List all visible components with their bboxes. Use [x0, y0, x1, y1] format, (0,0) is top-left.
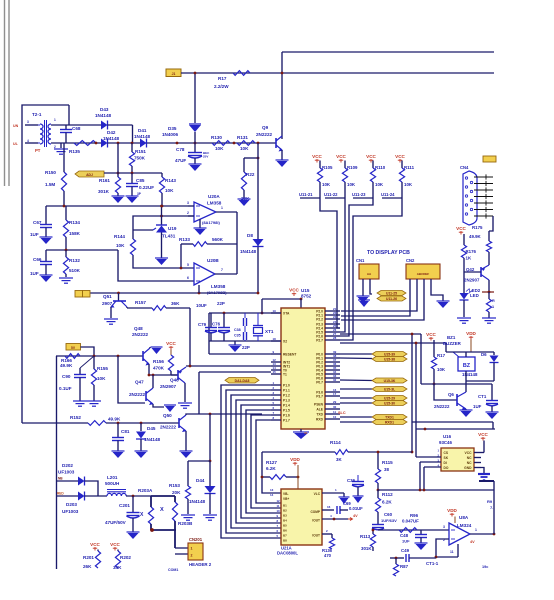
- wire vertical x=282 to Q9: [281, 52, 283, 139]
- svg-text:P2.7: P2.7: [316, 339, 323, 343]
- CN4 pin lines: [474, 176, 493, 178]
- wire y=372 T0 line: [199, 371, 271, 373]
- net flag row P0.1: [340, 357, 372, 360]
- wire crystal rail top y=313 to X1: [209, 312, 281, 314]
- svg-text:C78: C78: [176, 147, 185, 152]
- svg-text:NC: NC: [467, 456, 472, 460]
- ground under C36: [353, 495, 364, 497]
- svg-text:750K: 750K: [134, 156, 146, 161]
- svg-text:CT1: CT1: [478, 394, 487, 399]
- wire Q48 emitter to y=375: [149, 364, 178, 375]
- svg-text:560K: 560K: [212, 237, 224, 242]
- svg-text:R127: R127: [266, 460, 277, 465]
- ground at Q47 emitter: [164, 404, 176, 406]
- resistor R156 470K: [170, 350, 172, 356]
- svg-text:R157: R157: [135, 300, 146, 305]
- capacitor C90 0.1UF: [79, 368, 81, 374]
- svg-text:R175: R175: [472, 225, 483, 230]
- svg-text:SLC: SLC: [338, 411, 346, 415]
- svg-text:R202: R202: [120, 555, 131, 560]
- resistor R113 301K: [372, 530, 374, 534]
- svg-text:RXD1: RXD1: [385, 420, 394, 424]
- inductor L201 500UH: [107, 493, 112, 496]
- svg-text:2N2222: 2N2222: [160, 425, 177, 430]
- ground under TL431: [155, 257, 168, 259]
- wire bold to CN201: [174, 530, 176, 548]
- svg-text:10K: 10K: [97, 376, 106, 381]
- capacitor C60 1UF/63V: [372, 524, 384, 526]
- svg-text:VCC: VCC: [465, 451, 473, 455]
- svg-text:10K: 10K: [215, 146, 224, 151]
- svg-text:R144: R144: [114, 234, 125, 239]
- resistor R87: [393, 564, 398, 576]
- wire diagonal to C90: [80, 356, 94, 368]
- svg-text:Q51: Q51: [103, 294, 112, 299]
- svg-text:1N4148: 1N4148: [240, 249, 257, 254]
- svg-text:HEADER 2: HEADER 2: [189, 562, 212, 567]
- svg-text:22P: 22P: [217, 301, 225, 306]
- net flag row single2: [340, 388, 372, 390]
- svg-text:U15-3L: U15-3L: [384, 387, 395, 391]
- svg-text:CN4: CN4: [460, 165, 469, 170]
- svg-text:R153: R153: [169, 483, 180, 488]
- resistor R176 1K: [463, 234, 465, 245]
- svg-text:R132: R132: [69, 258, 80, 263]
- svg-text:5: 5: [187, 263, 189, 267]
- svg-text:10K: 10K: [322, 182, 331, 187]
- svg-text:VCC: VCC: [478, 432, 488, 437]
- svg-text:29: 29: [333, 400, 337, 404]
- svg-text:C85: C85: [136, 178, 145, 183]
- svg-text:Q47: Q47: [135, 380, 144, 385]
- svg-text:1.5M: 1.5M: [45, 182, 55, 187]
- wire Q47 emitter to ground: [153, 404, 164, 407]
- wire buzzer bottom rail: [465, 371, 467, 381]
- svg-text:22P: 22P: [242, 345, 250, 350]
- wire buzzer top rail: [446, 351, 494, 353]
- svg-text:B5: B5: [283, 524, 287, 528]
- net flag pair2: [340, 397, 372, 399]
- svg-text:VCC: VCC: [426, 332, 436, 337]
- svg-text:C60: C60: [384, 512, 393, 517]
- wire crystal left vertical: [208, 313, 210, 354]
- wire x=258 vertical Q9 branch down to opamp rail: [257, 143, 259, 293]
- op-amp U8A LM324: [449, 523, 470, 545]
- resistor R112 6.2K: [377, 490, 379, 498]
- svg-text:6.2K: 6.2K: [266, 466, 276, 471]
- ground under CN2: [437, 300, 450, 302]
- svg-text:U15-30: U15-30: [384, 401, 395, 405]
- resistor R130 10K: [212, 141, 230, 146]
- wire Q6 base: [434, 384, 457, 400]
- wire right edge stub thick: [479, 480, 494, 482]
- svg-text:U8A: U8A: [459, 515, 469, 520]
- wire CN1 pin1 to ground: [362, 279, 364, 296]
- svg-text:B2: B2: [283, 509, 287, 513]
- svg-text:VDD: VDD: [290, 457, 300, 462]
- svg-text:C49: C49: [401, 548, 410, 553]
- svg-text:15: 15: [273, 370, 277, 374]
- svg-text:R161: R161: [99, 178, 110, 183]
- U15 right pins: [325, 310, 340, 312]
- svg-text:U11-23: U11-23: [352, 192, 366, 197]
- diode D43 1N4148: [101, 121, 108, 130]
- svg-text:R176: R176: [466, 249, 477, 254]
- svg-text:VCC: VCC: [312, 154, 322, 159]
- ground under C48: [415, 542, 428, 544]
- svg-text:0.22UF: 0.22UF: [139, 185, 154, 190]
- svg-text:R130: R130: [211, 135, 222, 140]
- svg-text:C90: C90: [62, 374, 71, 379]
- svg-text:8752: 8752: [301, 294, 312, 299]
- svg-text:R96: R96: [410, 513, 419, 518]
- svg-text:2N2222: 2N2222: [129, 392, 146, 397]
- svg-text:P1.2: P1.2: [283, 394, 290, 398]
- diode D41 1N4148: [140, 139, 147, 148]
- IC U21 DAC0800L: [281, 489, 322, 545]
- svg-text:49.9K: 49.9K: [60, 363, 73, 368]
- wire x=262 from VCC node to crystal rail: [261, 299, 263, 313]
- svg-text:Q9: Q9: [262, 125, 269, 130]
- wire x=118 down to U20B -input: [118, 250, 194, 281]
- resistor R17 10K: [433, 340, 435, 357]
- svg-text:11: 11: [450, 550, 454, 554]
- svg-text:C68: C68: [72, 126, 81, 131]
- resistor R175 49.9K: [488, 231, 490, 241]
- resistor R110 10K: [372, 161, 374, 169]
- svg-text:C201: C201: [119, 503, 130, 508]
- wire VLC pin: [322, 492, 344, 494]
- svg-text:4V: 4V: [470, 540, 475, 544]
- capacitor C48: [420, 530, 422, 534]
- svg-text:26K: 26K: [83, 564, 92, 569]
- op-amp U20A LM358: [194, 202, 216, 222]
- outer box wire left: [22, 105, 69, 423]
- op-amp U20B LM358: [194, 263, 215, 285]
- net flag ADJ: [75, 171, 104, 177]
- svg-text:4: 4: [27, 139, 29, 143]
- resistor R115 38: [377, 452, 379, 469]
- svg-text:0.047UF: 0.047UF: [402, 519, 419, 524]
- svg-text:C36: C36: [347, 478, 356, 483]
- svg-text:L201: L201: [107, 475, 118, 480]
- svg-text:28: 28: [333, 336, 337, 340]
- svg-text:11: 11: [333, 410, 336, 414]
- resistor R17 2.2/2W: [233, 71, 250, 76]
- svg-text:COM1: COM1: [168, 568, 178, 572]
- svg-text:PT: PT: [35, 148, 41, 153]
- svg-text:T2-1: T2-1: [32, 112, 42, 117]
- svg-text:P3.7: P3.7: [316, 395, 323, 399]
- ground under R153: [181, 514, 195, 516]
- svg-text:Q6: Q6: [448, 392, 454, 397]
- svg-text:6.2K: 6.2K: [382, 500, 392, 505]
- svg-text:2N2907: 2N2907: [464, 278, 480, 283]
- resistor R157 36K: [126, 307, 128, 308]
- svg-text:U15-29: U15-29: [384, 396, 395, 400]
- ground under C85: [126, 195, 139, 197]
- capacitor C201 47UF/50V polarized: [132, 496, 134, 512]
- wire y=293 rail from flag to x=258: [90, 292, 258, 294]
- svg-text:1: 1: [191, 547, 193, 551]
- connector CN201 HEADER 2: [188, 543, 203, 560]
- svg-text:R: R: [492, 299, 495, 303]
- svg-text:10: 10: [277, 509, 281, 513]
- wire x=416 SK feeder: [415, 343, 417, 457]
- svg-text:P1.0: P1.0: [283, 384, 290, 388]
- svg-text:DAC0800L: DAC0800L: [277, 551, 298, 556]
- capacitor C76: [223, 313, 225, 327]
- svg-text:U11-24: U11-24: [381, 192, 395, 197]
- svg-text:U11-22: U11-22: [324, 192, 338, 197]
- svg-text:R22: R22: [246, 172, 255, 177]
- svg-text:1: 1: [492, 305, 494, 309]
- svg-text:10K: 10K: [404, 182, 413, 187]
- wire RESET rail y=354: [209, 353, 271, 355]
- svg-text:C38: C38: [234, 328, 241, 332]
- svg-text:1UF/63V: 1UF/63V: [381, 518, 397, 523]
- svg-text:36K: 36K: [171, 301, 180, 306]
- svg-text:470: 470: [324, 553, 332, 558]
- wire D43 cathode to rail: [108, 124, 133, 126]
- capacitor C85 0.22UF: [131, 173, 133, 183]
- svg-text:SK: SK: [444, 456, 449, 460]
- svg-text:47UF: 47UF: [175, 158, 186, 163]
- transistor Q47 2N2222: [145, 391, 147, 401]
- svg-text:3K: 3K: [336, 457, 342, 462]
- wire VIN top rail y=73: [181, 72, 494, 74]
- svg-text:38: 38: [384, 467, 389, 472]
- svg-text:D44: D44: [196, 478, 205, 483]
- wire IOUT pin: [322, 518, 348, 520]
- svg-text:U11-25: U11-25: [386, 291, 397, 295]
- svg-text:11: 11: [277, 504, 280, 508]
- wire R111 bundle: [340, 198, 402, 340]
- ground under C81: [112, 450, 125, 452]
- resistor R132 510K: [65, 250, 67, 257]
- svg-text:R112: R112: [382, 492, 393, 497]
- svg-text:P1.4: P1.4: [283, 404, 290, 408]
- ground under R155: [87, 400, 101, 402]
- ground under Q46: [178, 402, 192, 404]
- svg-text:R151: R151: [135, 149, 146, 154]
- ground under Q50: [180, 450, 193, 452]
- svg-text:VCC: VCC: [395, 154, 405, 159]
- ground under R161: [112, 195, 125, 197]
- svg-text:1N4148: 1N4148: [144, 437, 161, 442]
- svg-text:2907: 2907: [102, 301, 113, 306]
- svg-text:2N2222: 2N2222: [132, 332, 149, 337]
- svg-text:R17: R17: [437, 353, 446, 358]
- wire C49 node to R87: [395, 557, 398, 560]
- nested bus U15 P1 to DAC: [221, 385, 281, 538]
- wire joining D202/D203: [85, 481, 99, 496]
- svg-text:R113: R113: [360, 534, 371, 539]
- svg-text:U11-26: U11-26: [386, 297, 397, 301]
- ground at Q48 collector: [151, 346, 163, 348]
- svg-text:R150: R150: [45, 170, 56, 175]
- svg-text:10K: 10K: [437, 367, 446, 372]
- capacitor CT1 1UF: [491, 384, 493, 400]
- wire y=429 to U16: [416, 428, 495, 430]
- svg-text:3: 3: [443, 525, 445, 529]
- diode D203 UF1003: [57, 495, 79, 497]
- svg-text:17: 17: [333, 392, 337, 396]
- svg-text:3: 3: [27, 120, 29, 124]
- svg-text:ADJ: ADJ: [86, 173, 93, 177]
- transistor Q9 2N2222: [275, 138, 277, 148]
- ground under C66: [40, 274, 53, 276]
- ground under C67: [40, 236, 53, 238]
- svg-text:R114: R114: [330, 440, 341, 445]
- wire Q42 collector: [488, 280, 490, 292]
- diode D44 1N4148: [209, 461, 211, 486]
- svg-text:U20B: U20B: [207, 258, 219, 263]
- resistor R135: [74, 141, 96, 146]
- svg-text:U15-38: U15-38: [384, 357, 395, 361]
- svg-text:47UF/50V: 47UF/50V: [105, 520, 127, 525]
- svg-text:X2: X2: [283, 340, 287, 344]
- svg-text:B3: B3: [283, 514, 287, 518]
- svg-text:U15: U15: [301, 288, 310, 293]
- ground under crystal rail: [234, 341, 236, 345]
- svg-text:301K: 301K: [98, 189, 110, 194]
- wire R133 to U20B +input: [180, 244, 182, 268]
- wire x=412 CS feeder: [411, 334, 413, 452]
- svg-text:VCC: VCC: [90, 542, 100, 547]
- resistor R177: [488, 292, 490, 299]
- svg-text:470K: 470K: [153, 366, 165, 371]
- svg-text:20K: 20K: [172, 490, 181, 495]
- svg-text:VCC: VCC: [336, 154, 346, 159]
- wire Q47 collector to y=375 rail: [152, 375, 154, 388]
- svg-text:U20A: U20A: [208, 194, 220, 199]
- svg-text:C76: C76: [212, 322, 221, 327]
- wire Q47 base loop: [118, 356, 145, 403]
- diode D35 1N4006: [189, 123, 201, 125]
- svg-text:TL431: TL431: [162, 234, 176, 239]
- wire R110 bundle: [340, 198, 373, 336]
- svg-text:NB: NB: [58, 477, 63, 481]
- wire transformer secondary bottom y=143: [51, 142, 101, 144]
- wire left box bottom corner: [22, 422, 57, 424]
- svg-text:1: 1: [54, 118, 56, 122]
- svg-text:D35: D35: [168, 126, 177, 131]
- svg-text:U16: U16: [443, 434, 452, 439]
- svg-text:13: 13: [270, 488, 274, 492]
- svg-text:R133: R133: [179, 237, 190, 242]
- svg-text:10UF: 10UF: [196, 303, 207, 308]
- label 4V with arrow: [348, 518, 353, 521]
- svg-text:1: 1: [221, 206, 223, 210]
- resistor R134 158K: [65, 206, 67, 220]
- svg-text:4V: 4V: [353, 514, 358, 518]
- svg-text:VCC: VCC: [166, 341, 176, 346]
- svg-text:PSEN: PSEN: [314, 403, 324, 407]
- wire stub: [353, 197, 373, 199]
- wire bold bottom R203 block: [151, 529, 176, 531]
- wire y=343 line to buzzer: [340, 342, 446, 344]
- wire U20A output to x=237: [216, 211, 237, 213]
- svg-text:R203A: R203A: [138, 488, 153, 493]
- wire y=461 node: [188, 460, 210, 462]
- page border lines: [4, 0, 6, 186]
- svg-text:16: 16: [327, 505, 331, 509]
- svg-text:COMP: COMP: [310, 510, 320, 514]
- svg-text:Q48: Q48: [134, 326, 143, 331]
- feedback box wire (U20A -input loop): [133, 216, 194, 239]
- wire crystal rail y=341 to X2: [209, 340, 281, 342]
- svg-text:P1.6: P1.6: [283, 414, 290, 418]
- wire x=446 to buzzer top rail: [445, 343, 447, 352]
- svg-text:1: 1: [475, 528, 477, 532]
- resistor R109 10K: [344, 161, 346, 169]
- svg-text:R156: R156: [153, 359, 164, 364]
- capacitor C69 0.01UF: [336, 506, 338, 514]
- wire CN4 to R175: [489, 216, 493, 231]
- resistor R201 26K: [97, 550, 99, 552]
- resistor R111 10K: [401, 161, 403, 169]
- svg-text:VCC: VCC: [289, 288, 299, 293]
- svg-text:T1: T1: [283, 373, 287, 377]
- svg-text:Q46: Q46: [170, 378, 179, 383]
- svg-text:R134: R134: [69, 220, 80, 225]
- svg-text:D8: D8: [247, 233, 253, 238]
- resistor R203B: [174, 496, 176, 502]
- svg-text:7: 7: [221, 268, 223, 272]
- wire x=56 vertical rail: [56, 356, 58, 569]
- transistor Q6 2N2222: [456, 394, 458, 406]
- resistor R161 301K: [117, 143, 119, 173]
- ground top right of U15: [358, 299, 370, 301]
- svg-text:10K: 10K: [165, 188, 174, 193]
- diode D6 1N4148: [493, 352, 495, 355]
- svg-text:32: 32: [333, 378, 337, 382]
- transistor Q42 2N2907: [480, 267, 482, 277]
- svg-text:B7: B7: [283, 534, 287, 538]
- wire U20B output join x=237: [215, 273, 237, 275]
- svg-text:R110: R110: [375, 165, 386, 170]
- svg-text:D45: D45: [147, 426, 156, 431]
- svg-text:XT1: XT1: [265, 329, 274, 334]
- wire U8A output: [470, 533, 494, 535]
- wire flag to y=356 rail: [81, 347, 95, 356]
- transistor Q50 2N2222: [178, 418, 180, 428]
- svg-text:R87: R87: [400, 564, 409, 569]
- wire y=422 to U16: [412, 421, 493, 423]
- svg-text:CN201: CN201: [189, 537, 203, 542]
- wire CN2 pins: [341, 279, 410, 316]
- wire CN1 pin2 to flag: [370, 279, 372, 294]
- capacitor C67 1UF: [45, 206, 47, 224]
- svg-text:C66: C66: [33, 257, 42, 262]
- ground under U16 GND pin: [481, 468, 484, 474]
- svg-text:R115: R115: [382, 460, 393, 465]
- svg-text:CN2: CN2: [406, 258, 415, 263]
- svg-text:VCC: VCC: [110, 542, 120, 547]
- capacitor C79: [210, 313, 212, 327]
- svg-text:1N4148: 1N4148: [462, 372, 478, 377]
- svg-text:14: 14: [270, 493, 274, 497]
- wire y=366 INT1 line: [186, 365, 271, 367]
- svg-text:U19: U19: [168, 226, 177, 231]
- wire y=334 line to Q6 drive: [340, 333, 421, 335]
- net flag above nest: [225, 378, 259, 384]
- capacitor C36: [357, 475, 359, 481]
- svg-text:R155: R155: [97, 366, 108, 371]
- svg-text:30: 30: [333, 405, 337, 409]
- net flag pair3 TXD RXD: [340, 416, 372, 418]
